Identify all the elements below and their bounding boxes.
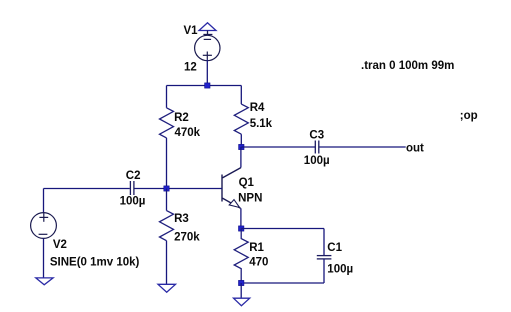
wire R4 to collector node bbox=[240, 134, 242, 147]
wire C1 to emitter ground node bbox=[241, 282, 324, 284]
wire Q1 collector pin bbox=[240, 147, 242, 168]
wire C3 to out bbox=[319, 146, 405, 148]
node junction bottom bbox=[239, 280, 244, 285]
wire bottom node to ground bbox=[240, 283, 242, 298]
svg-text:100µ: 100µ bbox=[120, 196, 146, 208]
svg-text:R2: R2 bbox=[174, 112, 189, 124]
wire C1 top lead bbox=[323, 229, 325, 256]
svg-text:100µ: 100µ bbox=[327, 263, 353, 275]
svg-text:;op: ;op bbox=[460, 110, 478, 122]
wire C2 to base bar bbox=[134, 188, 222, 190]
svg-text:V2: V2 bbox=[53, 239, 67, 251]
svg-text:12: 12 bbox=[184, 62, 197, 74]
svg-text:C2: C2 bbox=[126, 170, 141, 182]
ground (flipped) above V1 bbox=[199, 23, 216, 35]
ground below R3 bbox=[158, 284, 176, 292]
ground below V2 bbox=[36, 278, 53, 285]
wire emitter node to C1 bbox=[241, 228, 324, 230]
svg-text:5.1k: 5.1k bbox=[250, 118, 273, 130]
svg-text:Q1: Q1 bbox=[239, 177, 255, 189]
node junction top rail bbox=[205, 83, 210, 88]
svg-text:out: out bbox=[406, 142, 424, 154]
svg-text:NPN: NPN bbox=[238, 193, 262, 205]
ground below R1 bbox=[234, 298, 250, 306]
resistor R1 bbox=[234, 229, 248, 284]
svg-text:SINE(0 1mv 10k): SINE(0 1mv 10k) bbox=[50, 256, 140, 268]
svg-text:470: 470 bbox=[249, 257, 268, 269]
resistor R2 bbox=[160, 108, 174, 138]
wire collector to C3 bbox=[241, 146, 315, 148]
transistor Q1 bbox=[222, 168, 241, 209]
wire Q1 emitter pin bbox=[240, 208, 242, 228]
wire R3 to ground bbox=[166, 241, 168, 285]
svg-text:270k: 270k bbox=[174, 232, 200, 244]
wire top rail bbox=[167, 85, 242, 87]
svg-text:C3: C3 bbox=[309, 129, 324, 141]
svg-text:C1: C1 bbox=[327, 242, 342, 254]
node junction base bbox=[164, 186, 169, 191]
capacitor C1 bbox=[317, 256, 332, 259]
voltage source V2 bbox=[31, 213, 57, 239]
voltage source V1 bbox=[195, 35, 220, 60]
wire top rail to R4 bbox=[240, 86, 242, 105]
wire R2 to base node bbox=[166, 138, 168, 189]
wire V1 to top rail bbox=[206, 59, 208, 85]
capacitor C3 bbox=[315, 141, 319, 154]
svg-text:470k: 470k bbox=[175, 127, 201, 139]
wire V2 to ground bbox=[43, 238, 45, 278]
svg-text:.tran 0 100m 99m: .tran 0 100m 99m bbox=[361, 60, 454, 72]
wire base node to R3 bbox=[166, 189, 168, 211]
node junction collector bbox=[239, 144, 244, 149]
wire V2 to base wire bbox=[43, 189, 45, 213]
svg-text:100µ: 100µ bbox=[304, 155, 330, 167]
resistor R4 bbox=[234, 104, 248, 134]
capacitor C2 bbox=[130, 181, 134, 195]
svg-text:R1: R1 bbox=[249, 242, 264, 254]
node junction emitter bbox=[239, 226, 244, 231]
resistor R3 bbox=[160, 211, 174, 241]
wire base bbox=[44, 188, 130, 190]
svg-text:V1: V1 bbox=[184, 25, 199, 37]
svg-text:R3: R3 bbox=[174, 213, 189, 225]
svg-text:R4: R4 bbox=[250, 102, 265, 114]
wire top rail to R2 bbox=[166, 86, 168, 108]
wire C1 bottom lead bbox=[323, 259, 325, 283]
